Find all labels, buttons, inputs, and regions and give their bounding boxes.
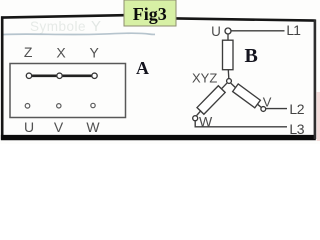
terminal W circle (box bottom row) <box>91 103 95 107</box>
wire star point to winding W <box>222 83 228 89</box>
wire winding to terminal W <box>197 111 201 116</box>
svg-text:V: V <box>54 119 64 135</box>
svg-text:U: U <box>24 119 34 135</box>
terminal U circle (box bottom row) <box>25 104 30 109</box>
svg-text:W: W <box>86 119 100 135</box>
svg-text:Y: Y <box>90 45 100 61</box>
terminal Y circle <box>92 73 97 78</box>
outer frame right border <box>314 20 317 140</box>
pink scan edge strip <box>317 92 320 141</box>
winding phase V (diagonal) <box>233 84 261 108</box>
outer frame top border <box>1 15 316 20</box>
svg-text:XYZ: XYZ <box>192 71 217 86</box>
terminal box A outline <box>10 64 126 118</box>
Fig3 green label box <box>124 0 176 26</box>
svg-text:Z: Z <box>24 44 33 60</box>
svg-text:V: V <box>263 95 272 110</box>
wire star point to winding V <box>231 83 236 88</box>
svg-text:Y: Y <box>91 18 101 35</box>
winding phase U (vertical) <box>223 40 234 69</box>
wire W to L3 <box>195 121 287 127</box>
svg-text:L3: L3 <box>289 121 304 137</box>
wire U to L1 <box>231 30 285 32</box>
svg-text:B: B <box>245 45 258 67</box>
svg-text:A: A <box>136 58 149 78</box>
terminal U circle (star) <box>225 28 231 34</box>
svg-text:X: X <box>56 45 66 61</box>
svg-text:Fig3: Fig3 <box>133 4 167 24</box>
wire V to L2 <box>266 108 287 110</box>
svg-text:Symbole: Symbole <box>30 19 86 34</box>
terminal Z circle <box>26 73 31 78</box>
terminal W circle (star) <box>193 116 198 121</box>
outer frame bottom border <box>1 135 316 140</box>
star point circle XYZ <box>227 79 232 84</box>
wire winding to star point <box>227 70 230 79</box>
winding phase W (diagonal) <box>197 86 225 115</box>
svg-text:U: U <box>211 24 221 39</box>
terminal V circle (star) <box>261 107 266 112</box>
wire U terminal to winding <box>227 34 229 40</box>
wire winding to terminal V <box>258 104 262 107</box>
terminal X circle <box>57 73 62 78</box>
blue underline <box>2 33 155 34</box>
svg-text:L1: L1 <box>286 23 300 38</box>
svg-text:L2: L2 <box>289 101 304 117</box>
terminal V circle (box bottom row) <box>57 104 61 108</box>
outer frame left border <box>1 16 4 139</box>
shorting bar link <box>29 74 95 77</box>
